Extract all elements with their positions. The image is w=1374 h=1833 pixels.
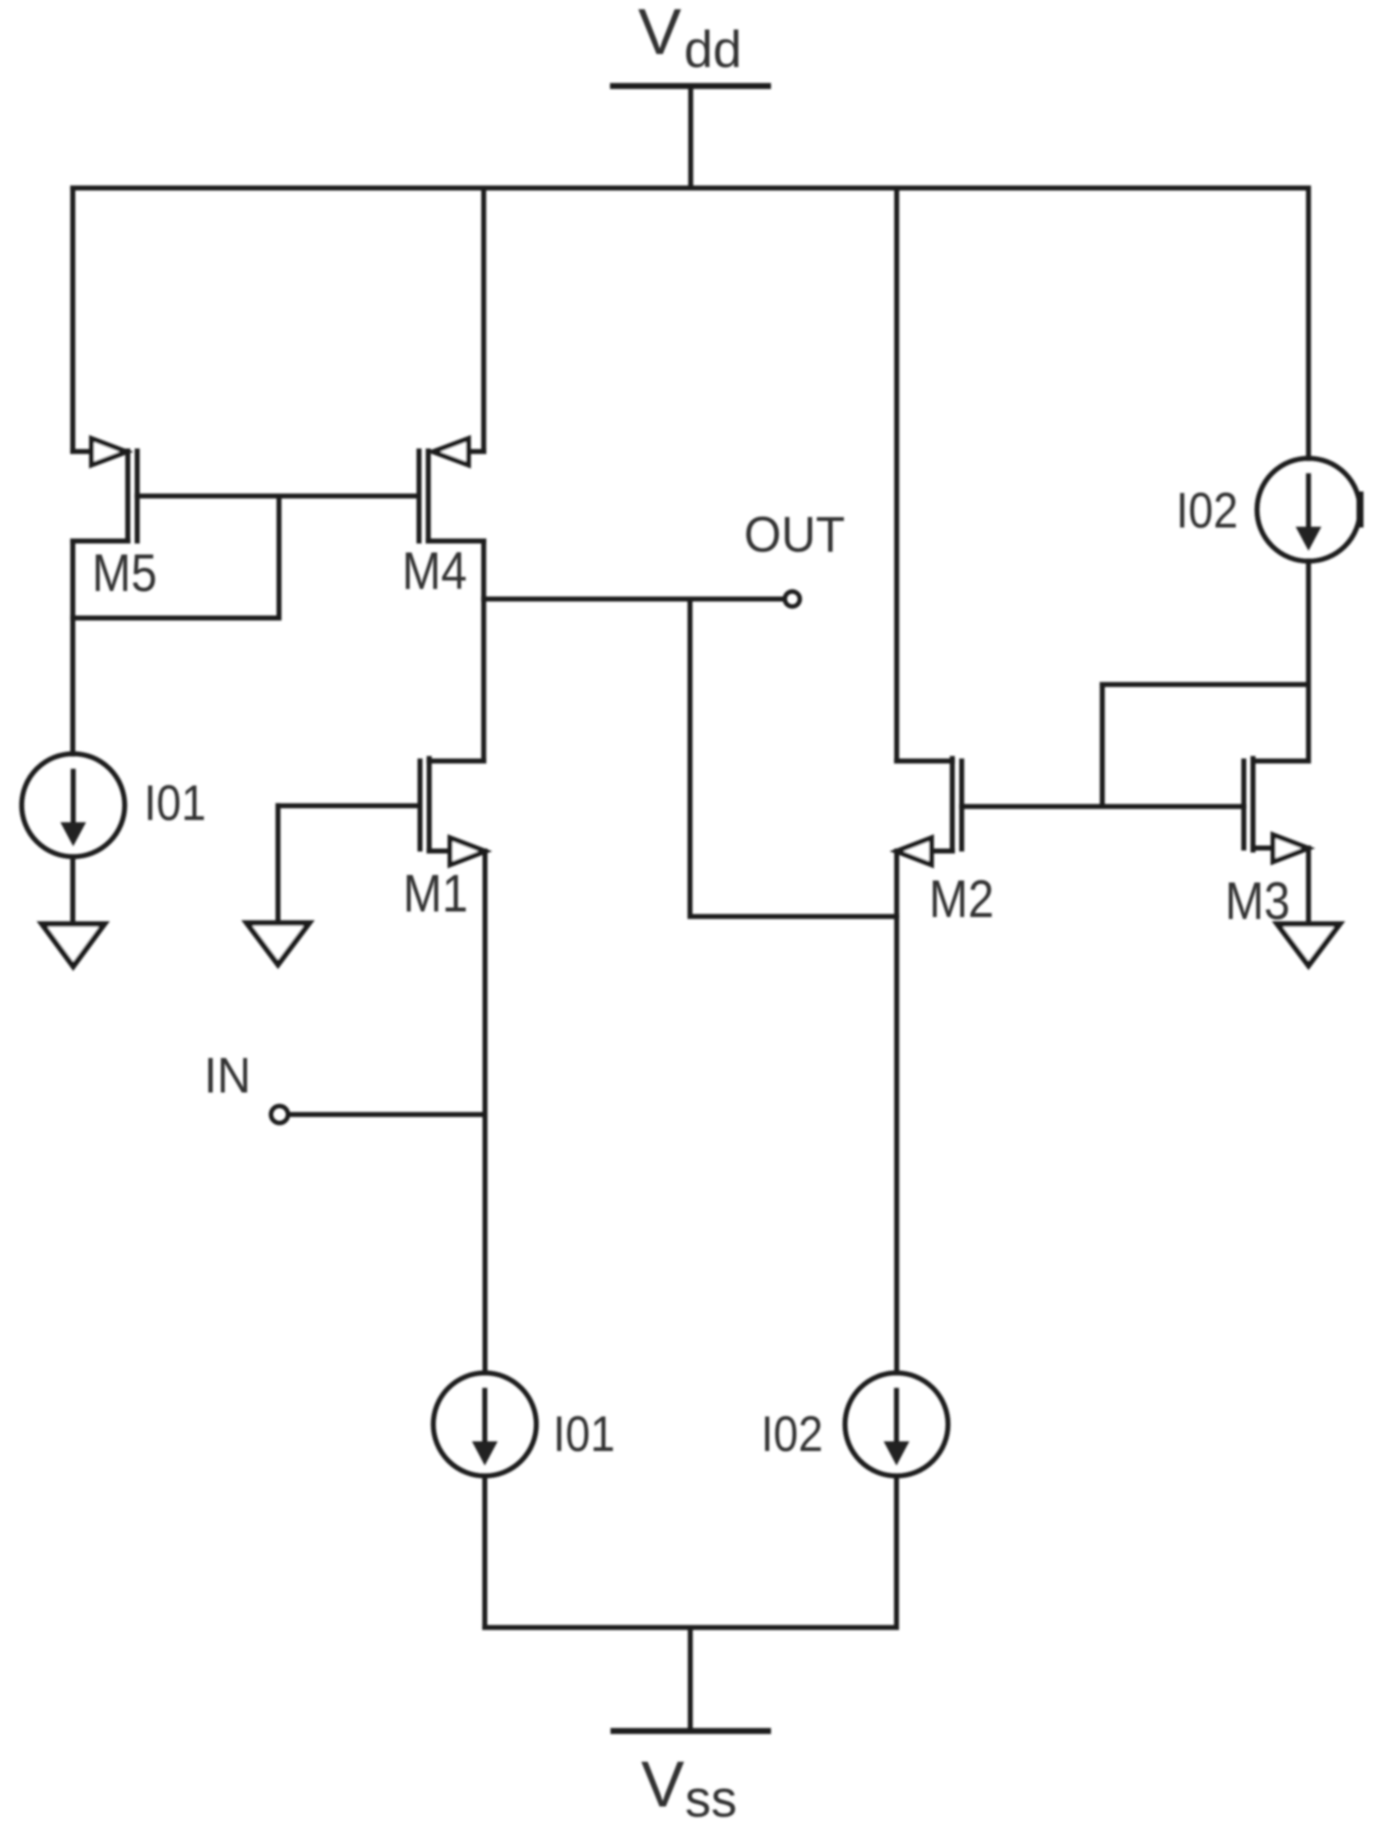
- wire top rail: [73, 186, 1309, 191]
- node OUT wire: [484, 597, 785, 602]
- svg-text:I02: I02: [1176, 483, 1238, 539]
- wire Vss stub: [688, 1628, 693, 1732]
- Vdd power bar: [613, 83, 768, 89]
- svg-text:M4: M4: [402, 542, 467, 601]
- current source I01 top: [22, 754, 206, 857]
- wire M3 gate feedback vertical: [1100, 685, 1105, 807]
- wire M5 gate-drain vertical: [277, 496, 282, 618]
- wire OUT drop: [688, 599, 693, 917]
- wire M3 gate feedback horizontal: [1102, 682, 1308, 687]
- svg-text:ss: ss: [685, 1771, 737, 1829]
- current source I01 bottom: [433, 1373, 615, 1476]
- svg-text:OUT: OUT: [744, 507, 845, 563]
- wire I01 bottom to rail: [482, 1476, 487, 1628]
- ground at M1 gate: [247, 923, 309, 965]
- wire rail to M4 source: [481, 188, 486, 452]
- wire M5 gate to M4 gate: [137, 494, 419, 499]
- wire M1 gate horizontal: [278, 803, 420, 808]
- transistor M2: [896, 759, 994, 930]
- wire M5 gate-drain horizontal: [73, 616, 279, 621]
- transistor M4: [402, 439, 484, 602]
- svg-text:IN: IN: [204, 1048, 251, 1104]
- wire OUT to M2 source: [690, 914, 897, 919]
- svg-text:M1: M1: [403, 865, 468, 924]
- wire bottom rail: [485, 1625, 897, 1630]
- node IN terminal: [271, 1106, 288, 1123]
- label Vss: [641, 1748, 737, 1829]
- svg-text:I02: I02: [761, 1406, 823, 1462]
- transistor M5: [73, 439, 157, 604]
- current source I02 bottom: [761, 1373, 948, 1476]
- svg-text:V: V: [638, 0, 682, 68]
- svg-text:I01: I01: [553, 1406, 615, 1462]
- wire M3 to ground: [1306, 848, 1311, 924]
- wire M5 drain to I01: [70, 541, 75, 754]
- Vss power bar: [614, 1728, 769, 1734]
- artifact tick right of I02 circle: [1357, 495, 1364, 524]
- wire Vdd stub: [688, 86, 693, 188]
- wire rail to M5 source: [70, 188, 75, 452]
- wire rail to I02: [1306, 188, 1311, 459]
- svg-text:dd: dd: [684, 21, 742, 79]
- svg-text:V: V: [641, 1748, 685, 1821]
- wire M4 drain down: [481, 541, 486, 761]
- label Vdd: [638, 0, 742, 79]
- current source I02 top: [1176, 458, 1360, 561]
- wire M2 gate to M3 gate: [962, 804, 1244, 809]
- node OUT terminal: [785, 592, 800, 607]
- ground below M3: [1277, 924, 1339, 966]
- node IN wire: [289, 1112, 486, 1117]
- transistor M3: [1225, 759, 1309, 932]
- wire I02 bottom to rail: [894, 1476, 899, 1628]
- svg-text:M2: M2: [929, 870, 994, 929]
- svg-text:M5: M5: [92, 544, 157, 603]
- wire M1 source down: [483, 851, 488, 1373]
- svg-text:I01: I01: [144, 775, 206, 831]
- wire rail to M2 drain: [894, 188, 899, 761]
- transistor M1: [403, 759, 485, 924]
- wire M1 gate to ground: [276, 806, 281, 923]
- ground below I01: [42, 924, 104, 966]
- wire I01 to ground: [70, 857, 75, 924]
- wire M2 source down: [894, 851, 899, 1373]
- wire I02 to M3 source: [1306, 561, 1311, 761]
